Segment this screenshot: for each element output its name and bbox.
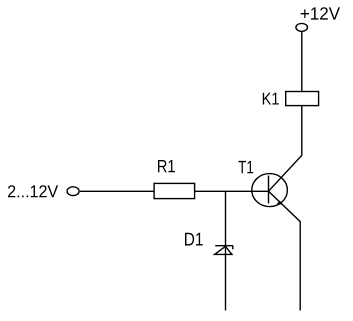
wire K1 to collector bend: [269, 106, 302, 192]
wire input to base: [80, 190, 269, 192]
wire terminal to K1: [301, 31, 303, 92]
diode D1 (zener): [215, 246, 233, 255]
transistor T1 base bar: [268, 176, 270, 204]
label 2...12V: [8, 185, 58, 197]
resistor R1: [154, 183, 195, 198]
transistor T1 circle: [252, 174, 288, 207]
terminal +12V: [296, 23, 308, 31]
relay K1: [286, 92, 319, 106]
node +12V label: [301, 7, 340, 19]
terminal input: [67, 187, 79, 196]
label T1: [238, 161, 253, 173]
wire emitter: [269, 191, 301, 310]
emitter arrow: [277, 201, 283, 205]
label K1: [263, 93, 279, 105]
label D1: [185, 233, 203, 246]
label R1: [158, 160, 175, 172]
wire diode branch: [225, 191, 227, 310]
